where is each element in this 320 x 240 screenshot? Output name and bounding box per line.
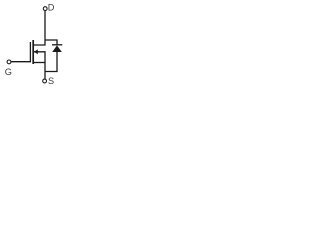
svg-text:S: S [48, 76, 54, 86]
svg-text:D: D [48, 3, 55, 13]
svg-text:G: G [5, 67, 12, 77]
